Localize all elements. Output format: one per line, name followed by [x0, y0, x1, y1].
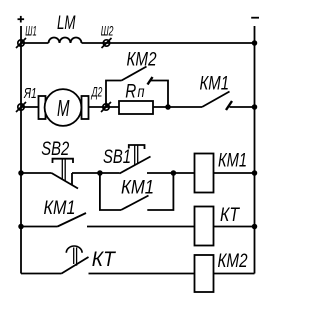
wire SB2 to node A: [72, 172, 120, 174]
wire row4 left: [21, 226, 58, 228]
terminal SH2: [102, 38, 112, 48]
contact KM1 row4: [58, 213, 87, 227]
resistor Rp: [119, 101, 153, 114]
wire KM1 contact to right bus: [230, 106, 255, 108]
svg-text:R: R: [125, 82, 136, 103]
wire coil KM2 to right bus: [214, 273, 255, 275]
svg-text:LM: LM: [57, 13, 76, 34]
wire SB1 to coil KM1: [147, 172, 195, 174]
coil KM2: [195, 255, 214, 292]
node right bus row3: [252, 170, 258, 176]
wire row1 left: [21, 42, 49, 44]
label Rp: [125, 82, 144, 103]
svg-text:КМ1: КМ1: [121, 177, 154, 198]
motor M1: [45, 89, 82, 126]
svg-text:п: п: [138, 84, 145, 101]
wire right bus: [254, 26, 256, 274]
wire parallel branch left: [100, 173, 121, 210]
svg-text:Я1: Я1: [23, 86, 36, 102]
wire coil KM1 to right bus: [214, 172, 255, 174]
inductor LM: [49, 38, 82, 44]
node right bus row1: [252, 40, 258, 46]
wire bypass right riser: [150, 81, 168, 108]
minus terminal: [251, 17, 259, 19]
node left bus row4: [18, 224, 24, 230]
node A: [97, 170, 103, 176]
svg-text:Ш1: Ш1: [25, 23, 37, 38]
node left bus row3: [18, 170, 24, 176]
node B: [171, 170, 177, 176]
svg-text:M: M: [57, 95, 70, 121]
wire row4 to coil KT: [87, 226, 195, 228]
wire coil KT to right bus: [214, 226, 255, 228]
svg-text:КТ: КТ: [92, 248, 117, 271]
wire row1 right: [82, 42, 255, 44]
wire row3 left: [21, 172, 52, 174]
node right bus row2: [252, 104, 258, 110]
contact KM2 bypass: [122, 67, 153, 85]
node right bus row4: [252, 224, 258, 230]
coil KT: [195, 207, 214, 246]
svg-text:КМ1: КМ1: [200, 73, 230, 94]
svg-text:SB2: SB2: [41, 139, 69, 160]
pushbutton SB2: [52, 159, 79, 189]
wire bypass left riser: [106, 81, 122, 108]
terminal SH1: [16, 38, 26, 48]
wire resistor to KM1 contact: [153, 106, 202, 108]
motor M1 brushes: [39, 96, 89, 119]
node resistor right: [165, 104, 171, 110]
svg-text:КТ: КТ: [220, 205, 240, 226]
wire row5 to coil KM2: [89, 273, 195, 275]
terminal YA1: [16, 102, 26, 112]
svg-text:SB1: SB1: [103, 147, 131, 168]
svg-text:КМ1: КМ1: [44, 198, 76, 219]
svg-text:КМ2: КМ2: [127, 49, 157, 70]
contact KM1 parallel: [121, 196, 149, 211]
svg-text:КМ2: КМ2: [218, 251, 248, 272]
svg-text:КМ1: КМ1: [218, 150, 247, 171]
terminal D2: [101, 102, 111, 112]
wire motor to resistor: [89, 106, 120, 108]
wire row2 bus to motor: [21, 106, 39, 108]
svg-text:Ш2: Ш2: [101, 23, 114, 38]
svg-text:Д2: Д2: [90, 85, 102, 100]
wire row5 left: [21, 273, 62, 275]
pushbutton SB1: [120, 145, 151, 174]
plus terminal: [18, 16, 25, 23]
wire parallel branch right: [147, 173, 173, 210]
coil KM1: [195, 154, 214, 193]
wire left bus: [20, 26, 22, 274]
contact KT timed: [62, 257, 89, 274]
contact KM1 row2: [202, 92, 232, 111]
